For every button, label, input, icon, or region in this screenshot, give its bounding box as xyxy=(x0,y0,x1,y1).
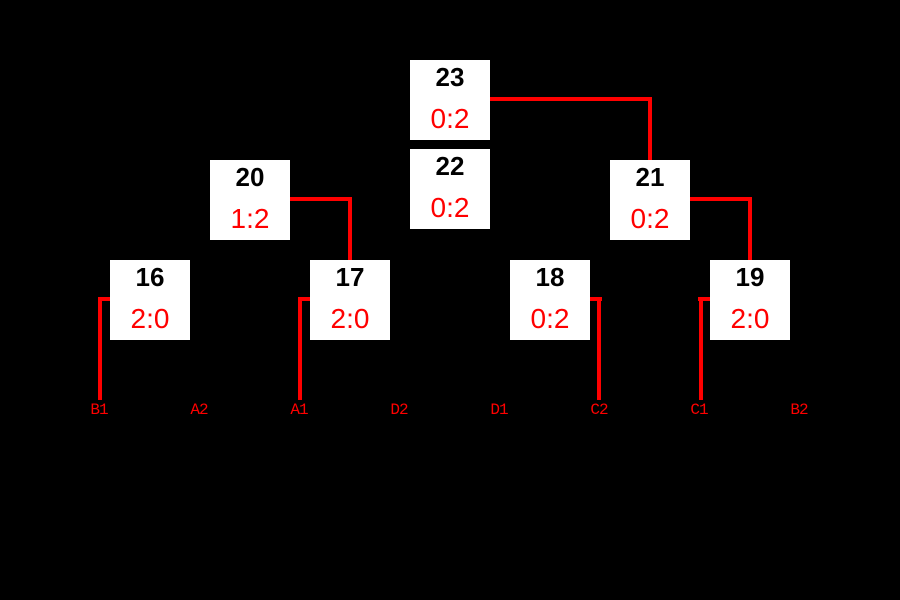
label D2 xyxy=(379,402,419,418)
match box 17 xyxy=(310,260,390,340)
wire from box 23 to box 21: horizontal xyxy=(490,97,652,101)
match box 19 xyxy=(710,260,790,340)
wire from box 20 to box 17: vertical xyxy=(348,197,352,260)
label C1 xyxy=(679,402,719,418)
label B2 xyxy=(779,402,819,418)
wire from box 19 to label C1: vertical xyxy=(699,297,703,400)
label A1 xyxy=(279,402,319,418)
wire from box 19 to label C1: horizontal xyxy=(698,297,710,301)
match box 20 xyxy=(210,160,290,240)
wire from box 17 to label A1: horizontal xyxy=(298,297,310,301)
match box 18 xyxy=(510,260,590,340)
label C2 xyxy=(579,402,619,418)
label B1 xyxy=(79,402,119,418)
wire from box 18 to label C2: vertical xyxy=(597,297,601,400)
match box 22 xyxy=(410,149,490,229)
wire from box 18 to label C2: horizontal xyxy=(590,297,602,301)
wire from box 23 to box 21: vertical xyxy=(648,97,652,160)
wire from box 16 to label B1: vertical xyxy=(98,297,102,400)
label D1 xyxy=(479,402,519,418)
wire from box 21 to box 19: horizontal xyxy=(690,197,752,201)
wire from box 16 to label B1: horizontal xyxy=(98,297,110,301)
match box 23 xyxy=(410,60,490,140)
wire from box 17 to label A1: vertical xyxy=(298,297,302,400)
wire from box 21 to box 19: vertical xyxy=(748,197,752,260)
match box 16 xyxy=(110,260,190,340)
label A2 xyxy=(179,402,219,418)
match box 21 xyxy=(610,160,690,240)
wire from box 20 to box 17: horizontal xyxy=(290,197,352,201)
